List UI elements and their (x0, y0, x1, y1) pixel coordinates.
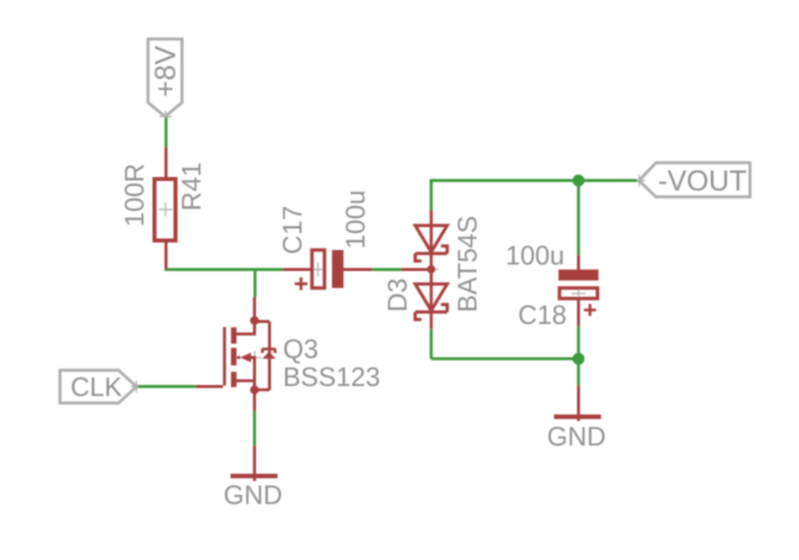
svg-text:D3: D3 (383, 278, 413, 312)
svg-text:100R: 100R (120, 163, 150, 226)
svg-text:100u: 100u (506, 241, 565, 271)
svg-text:C18: C18 (518, 300, 567, 330)
svg-text:GND: GND (547, 422, 606, 452)
svg-text:BAT54S: BAT54S (453, 216, 483, 313)
svg-text:R41: R41 (177, 162, 207, 211)
svg-text:BSS123: BSS123 (283, 362, 380, 392)
svg-text:+8V: +8V (150, 46, 182, 98)
svg-text:100u: 100u (341, 190, 371, 249)
svg-text:-VOUT: -VOUT (658, 166, 747, 198)
svg-text:C17: C17 (278, 206, 308, 255)
svg-text:CLK: CLK (71, 372, 123, 402)
svg-text:Q3: Q3 (283, 334, 318, 364)
svg-text:GND: GND (224, 480, 283, 510)
